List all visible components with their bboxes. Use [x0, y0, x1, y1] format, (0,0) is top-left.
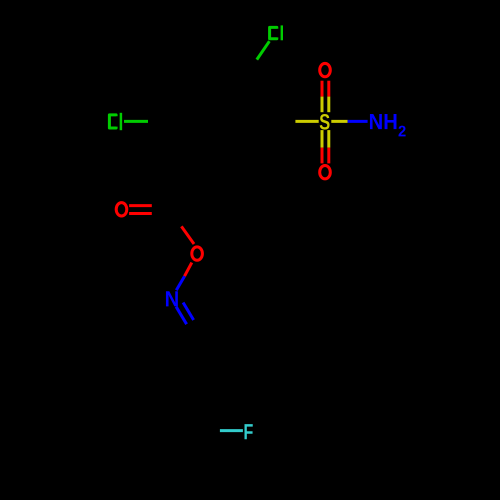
atom O (carbonyl oxygen): [116, 203, 127, 216]
atom O (sulfonyl top): [320, 63, 331, 76]
double bond C=O, line 2 (red half): [129, 212, 152, 215]
double bond S=O top, line 2: [327, 81, 330, 97]
atom O (ester oxygen): [192, 247, 203, 260]
bond O-N (blue half): [176, 276, 184, 290]
double bond N=C, main line (blue half): [176, 307, 187, 325]
atom O (sulfonyl bottom): [320, 166, 331, 179]
bond C(=O)-O ester (red half): [181, 226, 194, 244]
bond S-N (yellow half): [331, 120, 347, 123]
atom N (oxime nitrogen): [166, 291, 178, 306]
atom F (fluorine on ring2): [244, 424, 252, 439]
double bond S=O bottom, line 2: [327, 130, 330, 148]
atom Cl (left, ring1 C2 substituent): [109, 113, 121, 130]
double bond C=O, line 1 (red half): [129, 204, 152, 207]
double bond S=O bottom, line 1: [321, 130, 324, 148]
bond C5-S (yellow half): [295, 120, 318, 123]
bond C2-Cl (green half): [124, 120, 148, 123]
subscript 2 of NH2: [399, 126, 406, 137]
atom NH2 (sulfonamide nitrogen): [370, 114, 397, 129]
bond S-N (blue half): [348, 120, 368, 123]
double bond S=O top, line 1: [321, 81, 324, 97]
bond O-N (red half): [185, 263, 192, 277]
atom S (sulfonamide): [320, 114, 330, 130]
bond C-F (cyan half): [220, 429, 243, 432]
bond C4-Cl (green half): [257, 41, 270, 59]
double bond N=C, offset line (blue half): [183, 303, 194, 321]
atom Cl (top, ring1 C4 substituent): [270, 25, 282, 40]
